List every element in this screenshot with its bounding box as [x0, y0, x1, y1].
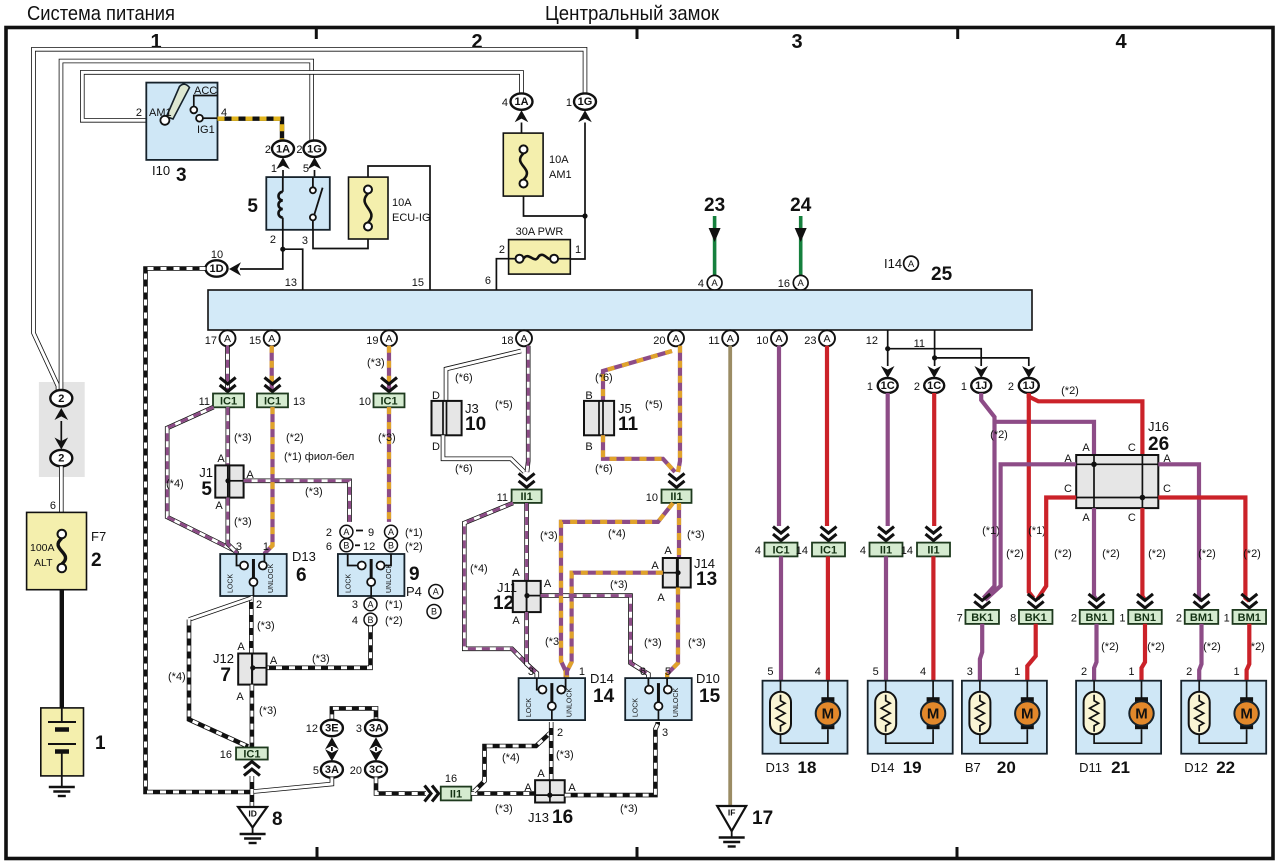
svg-text:D11: D11 [1079, 760, 1102, 775]
connector 1D [206, 260, 228, 276]
svg-text:D13: D13 [766, 760, 790, 775]
wire red J16 C column to BN1-1 [1142, 508, 1145, 600]
svg-text:(*3): (*3) [540, 530, 558, 542]
wire white J3 to II1-11 [443, 435, 525, 472]
svg-text:II1: II1 [520, 491, 532, 503]
svg-text:A: A [524, 782, 532, 794]
svg-text:6: 6 [640, 666, 646, 678]
wire white: ignition AM1 pin2 to 4(1A) [82, 72, 521, 120]
connector BM1 pin1 [1233, 610, 1267, 624]
door lock motor D12 (22) [1181, 681, 1266, 754]
svg-text:A: A [544, 578, 552, 590]
wire black-white (*4) loop to D14 pin2 [474, 733, 550, 792]
connector II1 pin10 [662, 490, 692, 504]
svg-text:Система питания: Система питания [27, 3, 175, 25]
svg-text:(*4): (*4) [166, 478, 184, 490]
svg-text:2: 2 [326, 527, 332, 539]
svg-text:5: 5 [303, 163, 309, 175]
connector 1C pin1 [878, 378, 898, 393]
svg-text:M: M [1021, 706, 1034, 723]
chevron into II1-4 [878, 527, 894, 541]
svg-text:23: 23 [804, 335, 816, 347]
svg-text:15: 15 [699, 686, 721, 707]
chevron into BN1-2 [1089, 594, 1105, 608]
door lock motor D13 (18) [763, 681, 848, 754]
svg-text:4: 4 [1115, 31, 1127, 53]
svg-text:9: 9 [409, 564, 420, 585]
svg-text:(*2): (*2) [1203, 641, 1221, 653]
wire red 1J-2 (*2) branch to J16 [1029, 394, 1143, 455]
svg-text:2: 2 [914, 381, 920, 393]
wire green feed 23 [713, 216, 717, 276]
svg-text:2: 2 [557, 727, 563, 739]
svg-text:A: A [512, 615, 520, 627]
svg-text:UNLOCK: UNLOCK [673, 688, 680, 718]
wire white: 2(1G) feed loop to connector 2 [61, 61, 312, 390]
wire purple-white J1 right to relay9 pin2/6 [244, 481, 350, 522]
wire purple J16 A column to BN1-2 [1094, 508, 1097, 600]
svg-text:14: 14 [593, 686, 615, 707]
chevron into BK1-8 [1028, 594, 1044, 608]
wire black-yellow: IG1 pin4 to 2(1A) [218, 119, 283, 141]
svg-text:(*4): (*4) [168, 671, 186, 683]
svg-text:(*1): (*1) [1028, 525, 1046, 537]
svg-text:A: A [568, 782, 576, 794]
svg-text:B: B [431, 607, 437, 617]
svg-text:A: A [657, 592, 665, 604]
dash 2A-9A [356, 530, 363, 532]
svg-text:10A: 10A [549, 154, 569, 166]
wire purple IC1-4 to door lamp 18 [779, 556, 783, 680]
svg-text:IF: IF [728, 808, 736, 818]
chevron into IC1-4 [773, 527, 789, 541]
svg-text:11: 11 [497, 492, 508, 504]
svg-text:8: 8 [1010, 613, 1016, 625]
svg-text:II1: II1 [670, 491, 682, 503]
svg-text:1J: 1J [975, 380, 987, 392]
svg-text:4: 4 [860, 545, 866, 557]
svg-text:5: 5 [313, 765, 319, 777]
zone tick bottom 1-2 [316, 847, 319, 858]
svg-text:A: A [1082, 512, 1090, 524]
connector B pin6 relay9 [340, 539, 353, 552]
svg-text:(*3): (*3) [378, 432, 396, 444]
svg-text:1: 1 [95, 733, 106, 754]
svg-text:3: 3 [528, 666, 534, 678]
svg-text:A: A [270, 655, 278, 667]
svg-text:IC1: IC1 [243, 749, 260, 761]
connector II1 pin4 [870, 543, 903, 557]
svg-text:1: 1 [1014, 666, 1020, 678]
svg-text:A: A [224, 333, 231, 345]
svg-text:1: 1 [1233, 666, 1239, 678]
svg-text:10: 10 [359, 396, 371, 408]
svg-text:(*2): (*2) [1054, 548, 1072, 560]
svg-text:3: 3 [791, 31, 802, 53]
connector 1J pin1 [971, 378, 991, 393]
svg-text:4: 4 [698, 278, 704, 290]
wire white loop (*4) IC1-11 to D13 pin3 [167, 407, 234, 550]
svg-text:21: 21 [1111, 758, 1130, 777]
svg-text:7: 7 [220, 665, 231, 686]
wire purple BM1-2 to door 22 [1199, 624, 1201, 681]
svg-text:A: A [217, 453, 225, 465]
wire white D13 pin2 branch diagonal [189, 598, 251, 620]
junction block bus bar [208, 290, 1032, 330]
label 10A ECU-IG [392, 197, 431, 224]
svg-text:IG1: IG1 [197, 124, 215, 136]
connector 2(1G) [304, 141, 326, 157]
wire purple-yellow bus20 direct to II1-10 [678, 346, 680, 472]
svg-text:13: 13 [293, 396, 305, 408]
svg-text:J12: J12 [213, 651, 234, 666]
svg-text:BK1: BK1 [971, 612, 993, 624]
junction J14 [663, 558, 691, 588]
svg-text:(*2): (*2) [286, 432, 304, 444]
wire ECU-IG to bus pin15 [368, 166, 430, 290]
svg-text:13: 13 [696, 569, 717, 590]
svg-text:15: 15 [249, 335, 261, 347]
svg-text:2: 2 [58, 453, 64, 465]
label 10A AM1 [549, 154, 572, 181]
wire black-white link 3E-3A top [332, 708, 376, 720]
svg-text:3: 3 [967, 666, 973, 678]
wire purple-yellow bus20 to J5 [603, 351, 672, 401]
svg-text:4: 4 [815, 666, 821, 678]
svg-text:1C: 1C [881, 380, 895, 392]
wire white bus18 to J3 [446, 351, 521, 401]
chevron into BM1-2 [1194, 594, 1210, 608]
connector 3A upper [365, 720, 387, 736]
svg-text:A: A [908, 259, 915, 270]
wire red 1C-2 to II1-14 [932, 393, 936, 526]
lock actuator D10 [625, 678, 692, 720]
svg-text:3A: 3A [369, 723, 383, 735]
bus pin 20(A) [668, 330, 684, 346]
svg-text:BK1: BK1 [1025, 612, 1047, 624]
svg-text:LOCK: LOCK [633, 698, 640, 717]
svg-text:2: 2 [1071, 613, 1077, 625]
wire purple J16 right A to BM1-2 [1158, 464, 1201, 601]
svg-text:16: 16 [220, 749, 232, 761]
svg-text:25: 25 [931, 264, 953, 285]
svg-text:M: M [822, 706, 835, 723]
svg-text:A: A [798, 278, 805, 289]
connector 3A lower [321, 761, 343, 777]
svg-text:1: 1 [1128, 666, 1134, 678]
arrow into 2(1G) [308, 157, 322, 169]
svg-text:(*3): (*3) [257, 620, 275, 632]
svg-text:IC1: IC1 [380, 395, 397, 407]
svg-text:(*6): (*6) [595, 463, 613, 475]
wire black-white D13 pin2 to J12 [249, 596, 254, 654]
svg-text:D10: D10 [696, 671, 720, 686]
bus pin 15(A) [264, 330, 280, 346]
wire purple-yellow IC1-10 to relay9 pin9 [387, 407, 391, 522]
svg-text:A: A [237, 641, 245, 653]
ground IF [717, 806, 746, 847]
svg-text:(*3): (*3) [234, 516, 252, 528]
zone tick bottom 2-3 [636, 847, 639, 858]
svg-text:(*3): (*3) [305, 486, 323, 498]
connector A pin2 relay9 [340, 525, 353, 538]
svg-text:D: D [432, 441, 440, 453]
svg-text:UNLOCK: UNLOCK [567, 688, 574, 718]
svg-text:2: 2 [1186, 666, 1192, 678]
svg-text:(*6): (*6) [595, 372, 613, 384]
svg-text:19: 19 [903, 758, 922, 777]
svg-text:II1: II1 [927, 545, 939, 557]
svg-text:(*3): (*3) [644, 637, 662, 649]
wire relay9 bottom to A/B connectors [370, 596, 372, 598]
svg-text:B: B [585, 441, 592, 453]
svg-text:1: 1 [263, 541, 269, 553]
junction J13 [535, 780, 565, 802]
svg-text:BM1: BM1 [1238, 612, 1261, 624]
svg-text:15: 15 [412, 277, 424, 289]
wire 1G to 30A PWR [570, 123, 587, 260]
svg-text:1: 1 [575, 244, 581, 256]
wire purple 1C-1 to II1-4 [886, 393, 890, 526]
svg-text:LOCK: LOCK [345, 574, 352, 593]
arrow into 2(1A) [276, 157, 290, 169]
svg-text:1G: 1G [307, 143, 322, 155]
wire black-white D14 pin2 to J13 [549, 722, 554, 780]
svg-text:4: 4 [352, 615, 358, 627]
svg-text:A: A [433, 587, 439, 597]
relay 5 (main relay) [266, 177, 330, 230]
wire purple-yellow J14 bottom to D10 pin5 [667, 588, 678, 679]
bus pin 23(A) [819, 330, 835, 346]
svg-text:(*1) фиол-бел: (*1) фиол-бел [284, 451, 354, 463]
svg-text:3C: 3C [369, 764, 383, 776]
svg-text:BM1: BM1 [1190, 612, 1213, 624]
svg-text:2: 2 [270, 234, 276, 246]
wire black-white J12 to IC1-16 [250, 685, 255, 748]
svg-text:1: 1 [1119, 613, 1125, 625]
lock actuator D13 [220, 554, 287, 596]
wire purple-yellow J5 to II1-10 [603, 435, 675, 472]
connector 3C [365, 761, 387, 777]
svg-text:(*2): (*2) [1006, 548, 1024, 560]
arrow down between connectors 2 [55, 438, 69, 450]
junction J1 [215, 465, 243, 497]
svg-text:9: 9 [368, 527, 374, 539]
svg-text:23: 23 [704, 195, 725, 216]
svg-text:2: 2 [1176, 613, 1182, 625]
svg-text:Центральный замок: Центральный замок [545, 3, 719, 25]
svg-text:B: B [343, 541, 349, 551]
svg-text:A: A [367, 600, 373, 610]
wire red BK1-8 to door 20 [1027, 624, 1035, 681]
wire red BM1-1 to door 22 [1247, 624, 1250, 681]
lock actuator D14 [519, 678, 586, 720]
svg-text:IC1: IC1 [220, 395, 237, 407]
connector B pin12 relay9 [385, 539, 398, 552]
svg-text:M: M [1135, 706, 1148, 723]
wire purple-yellow bus15 to IC1-13 [270, 346, 274, 392]
wire red 1J-2 (*1) to BK1-8 [1029, 393, 1034, 598]
svg-text:(*3): (*3) [610, 579, 628, 591]
svg-text:BN1: BN1 [1085, 612, 1107, 624]
svg-text:C: C [1128, 442, 1136, 454]
wire purple-yellow J14 left to D14 pin1 [567, 573, 663, 678]
svg-text:18: 18 [798, 758, 817, 777]
svg-text:1J: 1J [1023, 380, 1035, 392]
svg-text:A: A [385, 333, 392, 345]
connector B variant P4 [427, 605, 441, 619]
svg-text:10: 10 [465, 414, 486, 435]
svg-text:5: 5 [665, 666, 671, 678]
svg-text:A: A [215, 500, 223, 512]
svg-text:(*1): (*1) [982, 525, 1000, 537]
svg-text:(*3): (*3) [259, 705, 277, 717]
svg-text:(*1): (*1) [385, 599, 403, 611]
connector II1 pin11 [512, 490, 542, 504]
svg-text:F7: F7 [91, 529, 106, 544]
svg-text:16: 16 [778, 278, 790, 290]
wire black-white relay9 to J12 [267, 626, 371, 668]
svg-text:C: C [1064, 483, 1072, 495]
svg-text:3: 3 [176, 165, 187, 186]
svg-text:2: 2 [296, 144, 302, 156]
svg-text:3: 3 [236, 541, 242, 553]
ignition switch I10 [146, 83, 217, 160]
svg-text:11: 11 [618, 414, 639, 435]
svg-text:(*6): (*6) [455, 372, 473, 384]
wire red J16 right C to BM1-1 [1158, 498, 1249, 602]
wire black-white: 1D to ground ID [146, 269, 253, 793]
connector 1C pin2 [924, 378, 944, 393]
svg-text:IC1: IC1 [772, 545, 789, 557]
lock actuator 9 (P4) [338, 554, 405, 596]
svg-text:B: B [367, 615, 373, 625]
connector BN1 pin1 [1128, 610, 1162, 624]
arrow into 1J-1 [974, 366, 988, 378]
chevron into II1-16 [425, 786, 439, 802]
svg-text:A: A [711, 278, 718, 289]
connector 2 lower [50, 450, 72, 466]
chevron into BK1-7 [974, 594, 990, 608]
arrow into 1J-2 [1022, 366, 1036, 378]
junction J12 [238, 654, 266, 685]
arrows between 3E-3A [325, 737, 339, 761]
junction J16 [1076, 455, 1158, 508]
connector A variant P4 [429, 585, 443, 599]
wire purple-white J11 to D14 pin3 [527, 612, 537, 678]
svg-text:20: 20 [653, 335, 665, 347]
label I14 connector A 25 [884, 256, 902, 271]
bus pin 11 wire [932, 330, 1029, 366]
svg-text:(*2): (*2) [1148, 548, 1166, 560]
fuse 10A AM1 [503, 123, 543, 197]
svg-text:16: 16 [552, 807, 573, 828]
svg-text:3: 3 [356, 723, 362, 735]
svg-text:3: 3 [662, 727, 668, 739]
wire relay5 pin2 down to 1D and bus pin13 [240, 230, 303, 290]
wire black-white J13 to D10 pin3 [565, 722, 658, 795]
connector 2(1A) [272, 141, 294, 157]
svg-text:A: A [672, 333, 679, 345]
svg-text:A: A [388, 527, 394, 537]
svg-text:J13: J13 [528, 810, 549, 825]
wire PWR pin2 to bus pin6 [496, 259, 508, 290]
svg-text:J16: J16 [1148, 419, 1169, 434]
wire purple-white loop (*4) II1-11 to D14 pin3 [464, 503, 535, 672]
connector 3E [321, 720, 343, 736]
svg-text:A: A [823, 333, 830, 345]
wire white 3A to ground junction [254, 777, 332, 791]
connector 2 upper [50, 390, 72, 406]
svg-text:19: 19 [366, 335, 378, 347]
door lock motor B7 (20) [962, 681, 1047, 754]
svg-text:100A: 100A [30, 542, 55, 554]
bus pin 18(A) [516, 330, 532, 346]
svg-text:14: 14 [796, 545, 808, 557]
svg-text:IC1: IC1 [264, 395, 281, 407]
arrow up between connectors 2 [55, 408, 69, 420]
chevron into IC1-13 [265, 378, 281, 392]
svg-text:20: 20 [350, 765, 362, 777]
svg-text:(*2): (*2) [1243, 548, 1261, 560]
wire purple bus10 to IC1-4 [777, 346, 781, 526]
wire purple-white II1-11 to J11 [524, 503, 529, 581]
connector BK1 pin7 [965, 610, 999, 624]
zone tick top 3-4 [956, 29, 959, 39]
wire purple-white bus18 direct to II1-11 [527, 346, 528, 472]
svg-text:(*2): (*2) [1102, 548, 1120, 560]
wire IC1-16 to ground ID [250, 776, 255, 807]
svg-text:8: 8 [272, 809, 283, 830]
wire green feed 24 [799, 216, 803, 276]
chevron below IC1-16 [244, 762, 260, 776]
svg-text:10: 10 [646, 492, 658, 504]
svg-text:(*4): (*4) [502, 752, 520, 764]
svg-text:B: B [585, 390, 592, 402]
arrow into 1D [229, 262, 241, 276]
arrow into 4(1A) [515, 110, 529, 122]
svg-text:3E: 3E [325, 723, 338, 735]
svg-text:(*2): (*2) [990, 429, 1008, 441]
svg-text:1G: 1G [578, 96, 593, 108]
svg-text:A: A [651, 560, 659, 572]
svg-text:(*2): (*2) [385, 615, 403, 627]
svg-text:6: 6 [485, 275, 491, 287]
svg-text:(*4): (*4) [608, 528, 626, 540]
svg-text:(*3): (*3) [620, 803, 638, 815]
svg-text:1: 1 [961, 381, 967, 393]
chevron into IC1-14 [821, 527, 837, 541]
svg-text:2: 2 [136, 107, 142, 119]
svg-text:10: 10 [211, 249, 223, 261]
svg-text:5: 5 [873, 666, 879, 678]
svg-text:A: A [537, 768, 545, 780]
svg-text:(*3): (*3) [495, 803, 513, 815]
svg-text:AM1: AM1 [149, 107, 172, 119]
wire purple-white IC1-11 to J1 [226, 407, 231, 465]
ground ID [238, 807, 267, 843]
arrowhead 23 [709, 228, 721, 242]
wire AM1 fuse to 1G node [524, 196, 586, 216]
svg-text:4: 4 [920, 666, 926, 678]
svg-text:5: 5 [247, 196, 258, 217]
connector A pin9 relay9 [385, 525, 398, 538]
wire purple 1J-1 (*1) to BK1-7 [981, 393, 994, 598]
connector B pin4 relay9 bottom [364, 613, 377, 626]
wire white connector2 to ALT fuse [59, 466, 64, 512]
svg-text:1: 1 [566, 97, 572, 109]
wire purple-white J1 to D13 pin3 [228, 498, 237, 554]
